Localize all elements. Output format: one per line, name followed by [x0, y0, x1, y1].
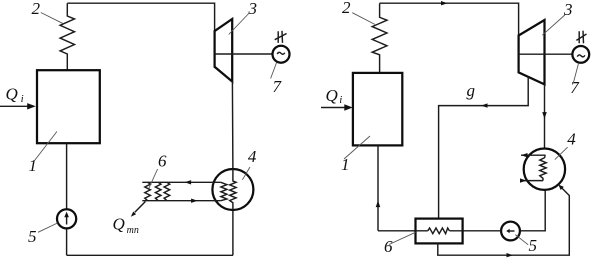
svg-text:5: 5: [28, 227, 37, 246]
svg-text:3: 3: [563, 0, 573, 19]
svg-text:mn: mn: [127, 225, 139, 236]
svg-text:i: i: [339, 94, 342, 106]
svg-text:6: 6: [158, 151, 167, 170]
svg-text:4: 4: [567, 129, 576, 148]
svg-text:3: 3: [248, 0, 258, 18]
svg-text:5: 5: [529, 236, 538, 255]
svg-text:6: 6: [384, 237, 393, 256]
svg-text:Q: Q: [113, 215, 125, 234]
svg-text:i: i: [21, 93, 24, 105]
svg-text:7: 7: [570, 78, 580, 97]
svg-text:4: 4: [248, 147, 257, 166]
svg-text:2: 2: [342, 0, 351, 17]
svg-text:g: g: [467, 81, 476, 100]
svg-text:2: 2: [32, 0, 41, 18]
svg-text:Q: Q: [6, 85, 18, 104]
svg-text:Q: Q: [326, 86, 338, 105]
